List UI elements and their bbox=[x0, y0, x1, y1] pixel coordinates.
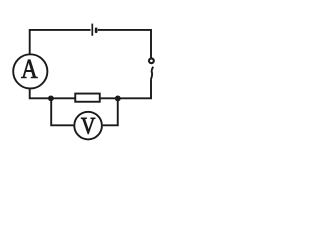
battery B1 short plate bbox=[95, 28, 98, 34]
ammeter A1 circle bbox=[13, 54, 47, 88]
voltmeter branch right wire bbox=[103, 98, 119, 126]
node junction dot left bbox=[48, 95, 54, 101]
voltmeter V1 circle bbox=[74, 112, 102, 140]
wire resistor to right node bbox=[100, 97, 118, 99]
switch S1 blade bbox=[151, 67, 153, 80]
wire right vertical lower (switch to bottom corner) bbox=[118, 79, 152, 98]
battery B1 long plate bbox=[91, 24, 93, 36]
node junction dot right bbox=[115, 95, 121, 101]
ammeter A1 label bbox=[21, 60, 37, 78]
wire bottom-left (corner to resistor) bbox=[29, 89, 75, 98]
voltmeter V1 label bbox=[81, 118, 95, 134]
voltmeter branch left wire bbox=[50, 98, 73, 125]
wire top-left (ammeter to battery) bbox=[29, 30, 91, 54]
wire top-right (battery to switch) bbox=[98, 30, 151, 59]
switch S1 contact circle bbox=[149, 58, 154, 63]
resistor R1 bbox=[75, 94, 100, 102]
